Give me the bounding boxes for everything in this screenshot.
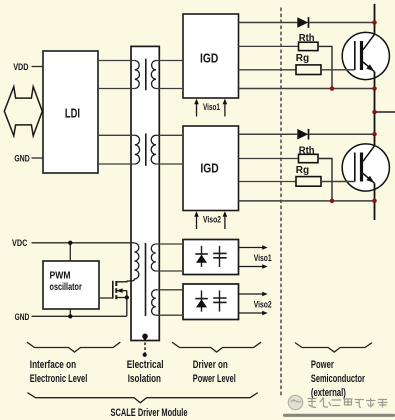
junction phase node <box>372 110 377 115</box>
wire IGD2 emitter return <box>239 200 375 202</box>
dashed separator driver/power <box>280 8 282 397</box>
svg-text:Semiconductor: Semiconductor <box>311 373 365 385</box>
svg-text:Power: Power <box>311 359 334 371</box>
rectifier 1 capacitor <box>213 246 226 267</box>
junction Rth1/emitter <box>330 86 335 91</box>
IGBT Q2 gate bar <box>354 153 356 182</box>
arrow Viso1 into IGD1 right <box>223 99 228 117</box>
wire DC+ rail top <box>374 4 376 35</box>
watermark logo <box>288 395 302 409</box>
wire IGD2 to Rth2 <box>239 158 299 160</box>
junction emitter Q1 <box>372 86 377 91</box>
diode D1 <box>297 17 308 28</box>
resistor Rg (channel 2) <box>296 177 321 187</box>
IGBT Q2 emitter with arrow <box>363 174 375 184</box>
svg-text:Power Level: Power Level <box>193 373 236 385</box>
wire IGD1 to Rth1 <box>239 45 299 47</box>
block rectifier 1 (Viso1 supply) <box>183 240 239 275</box>
arrow Viso2 into IGD2 left <box>194 211 199 229</box>
wire Rth1 to emitter line <box>318 46 332 88</box>
svg-text:GND: GND <box>15 312 30 323</box>
transformer T1 core <box>145 59 147 91</box>
wire PWM to MOSFET gate <box>99 297 113 299</box>
arrow rectifier1 output upper <box>239 245 268 250</box>
arrow rectifier2 output upper <box>239 292 268 297</box>
transistor Q3 source wire <box>116 291 127 317</box>
junction MOSFET source <box>125 295 129 299</box>
IGBT Q1 body bar <box>360 41 363 70</box>
wire IGD1 emitter return <box>239 88 375 90</box>
arrow rectifier1 output lower <box>239 264 268 269</box>
wire T2 to IGD2 (upper) <box>156 134 183 136</box>
brace driver level <box>172 342 261 352</box>
junction GND/PWM <box>68 314 72 318</box>
isolation barrier column <box>131 46 159 340</box>
block IGD (channel 2) <box>183 126 239 211</box>
svg-text:LDI: LDI <box>65 107 80 121</box>
transformer T3 secondary winding 2 <box>152 290 156 315</box>
wire VDC rail <box>32 242 135 244</box>
brace interface level <box>27 342 120 352</box>
svg-text:(external): (external) <box>311 387 346 399</box>
arrow Viso1 into IGD1 left <box>194 99 199 117</box>
svg-text:Rg: Rg <box>296 52 309 64</box>
wire phase output <box>375 111 395 113</box>
wire T2 to IGD2 (lower) <box>156 163 183 165</box>
transformer T3 secondary winding 1 <box>151 244 156 271</box>
resistor Rg (channel 1) <box>296 65 321 75</box>
wire T3 to rectifier1 (upper) <box>156 243 183 245</box>
svg-text:Electronic Level: Electronic Level <box>30 373 88 385</box>
junction Rth2/emitter <box>330 199 335 204</box>
wire T1 to IGD1 (upper) <box>156 60 183 62</box>
label Interface on Electronic Level <box>30 359 88 385</box>
arrow Viso2 into IGD2 right <box>223 211 228 229</box>
wire T3 to rectifier2 (upper) <box>156 289 183 291</box>
svg-text:Rg: Rg <box>296 164 309 176</box>
wire GND stub <box>32 157 44 159</box>
transistor Q3 MOSFET gate bar <box>112 281 114 299</box>
svg-text:Interface on: Interface on <box>30 359 76 371</box>
block rectifier 2 (Viso2 supply) <box>183 284 239 320</box>
svg-text:Viso1: Viso1 <box>203 102 220 112</box>
transistor Q3 drain wire <box>116 280 127 283</box>
junction collector Q2 <box>372 132 377 137</box>
svg-text:GND: GND <box>14 153 29 164</box>
IGBT Q1 gate bar <box>354 41 356 70</box>
wire GND rail <box>32 315 127 317</box>
block IGD (channel 1) <box>183 14 239 98</box>
svg-text:IGD: IGD <box>200 161 218 175</box>
label Electrical Isolation <box>127 359 164 385</box>
block LDI <box>43 51 98 173</box>
junction VDC/PWM <box>68 241 72 245</box>
junction collector Q1 <box>372 20 377 25</box>
junction emitter Q2 <box>372 199 377 204</box>
svg-text:SCALE Driver Module: SCALE Driver Module <box>111 407 188 419</box>
transformer T1 secondary winding <box>151 61 156 89</box>
wire IGD1 to Rg1 <box>239 69 297 71</box>
svg-text:VDC: VDC <box>12 238 27 249</box>
IGBT Q2 body bar <box>360 153 363 182</box>
wire VDD stub <box>32 66 44 68</box>
resistor Rth (channel 2) <box>299 154 319 162</box>
transistor Q3 MOSFET channel segments <box>115 281 117 299</box>
wire IGD2 to Rg2 <box>239 181 297 183</box>
wire PWM to GND <box>69 309 71 316</box>
transformer T1 primary winding <box>135 61 140 89</box>
wire IGD2 to D2 <box>239 133 298 135</box>
transformer T3 core <box>145 243 147 316</box>
wire Rg1 to gate <box>321 69 355 71</box>
label Driver on Power Level <box>193 359 236 385</box>
svg-text:oscillator: oscillator <box>50 282 82 293</box>
rectifier 2 diode <box>195 290 208 311</box>
resistor Rth (channel 1) <box>299 42 319 50</box>
diode D2 <box>297 129 308 140</box>
wire D2 to collector <box>309 133 374 135</box>
wire LDI to T1 (lower) <box>98 88 135 90</box>
wire phase rail middle <box>374 72 376 147</box>
IGBT Q1 collector <box>363 34 375 50</box>
IGBT Q1 circle <box>342 32 389 79</box>
svg-text:Viso1: Viso1 <box>254 253 272 263</box>
transformer T2 core <box>145 134 147 166</box>
IGBT Q2 collector <box>363 146 375 162</box>
wire LDI to T1 (upper) <box>98 60 135 62</box>
svg-text:Isolation: Isolation <box>128 373 161 385</box>
IGBT Q1 emitter with arrow <box>363 62 375 72</box>
wire Rth2 to emitter line <box>318 159 332 201</box>
watermark text <box>308 398 388 408</box>
svg-text:VDD: VDD <box>13 62 28 73</box>
wire LDI to T2 (upper) <box>98 134 135 136</box>
brace power semiconductor <box>295 343 372 352</box>
svg-text:Viso2: Viso2 <box>203 215 221 225</box>
svg-text:PWM: PWM <box>50 270 71 281</box>
host interface double arrow <box>4 87 42 136</box>
transformer T2 secondary winding <box>151 135 156 164</box>
svg-text:IGD: IGD <box>200 52 218 66</box>
svg-text:Electrical: Electrical <box>127 359 164 371</box>
brace SCALE driver module <box>28 393 258 403</box>
transformer T2 primary winding <box>135 135 140 164</box>
wire VDC to PWM <box>69 243 71 261</box>
rectifier 1 diode <box>195 246 208 267</box>
arrow rectifier2 output lower <box>239 311 268 316</box>
svg-text:Viso2: Viso2 <box>254 299 272 309</box>
rectifier 2 capacitor <box>213 290 226 311</box>
wire T1 to IGD1 (lower) <box>156 88 183 90</box>
wire IGD1 to D1 <box>239 22 298 24</box>
svg-text:Driver on: Driver on <box>193 359 228 371</box>
transistor Q3 body wire and arrow <box>117 290 127 292</box>
watermark underline bar <box>283 414 395 417</box>
wire D1 to collector <box>309 22 374 24</box>
wire Rg2 to gate <box>321 181 355 183</box>
wire T3 to rectifier2 (lower) <box>156 314 183 316</box>
node electrical isolation marker <box>142 334 148 357</box>
wire T3 to rectifier1 (lower) <box>156 270 183 272</box>
wire DC- rail bottom <box>374 183 376 220</box>
label Power Semiconductor (external) <box>311 359 365 399</box>
IGBT Q2 circle <box>342 144 389 191</box>
block PWM oscillator <box>43 261 99 309</box>
wire LDI to T2 (lower) <box>98 163 135 165</box>
transformer T3 primary winding <box>127 243 139 281</box>
